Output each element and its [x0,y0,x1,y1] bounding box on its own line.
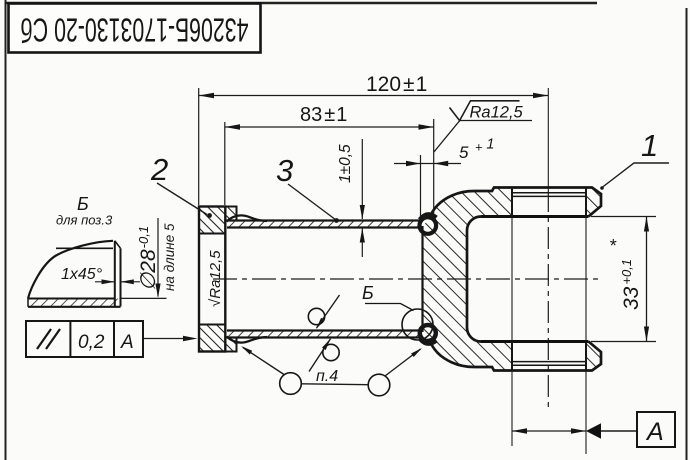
parallelism symbol // [37,329,51,349]
svg-text:120±1: 120±1 [366,73,427,96]
dimension 83±1 extension lines [224,122,226,205]
tube bottom wall hatch [227,331,421,338]
dimension 120±1 line [199,95,549,97]
detail Б indicator circle [402,309,433,340]
weld symbol lower circle [323,344,339,360]
note п.4 connector [301,383,368,386]
note п.4 left circle [280,373,302,395]
detail Б tube outer curve [28,241,113,299]
view A box [637,412,675,447]
svg-text:Ra12,5: Ra12,5 [470,104,524,122]
detail Б bore line [56,247,113,249]
ring bore line top [199,233,225,235]
svg-text:0,2: 0,2 [78,332,105,353]
surface finish Ra12,5 shelf [460,120,532,122]
yoke inner face bottom (bearing seat) [481,340,589,343]
yoke (item 1) hatch: web and arms [423,188,513,371]
yoke bearing groove bottom [512,361,586,363]
weld symbol upper leader [317,295,340,328]
svg-text:для поз.3: для поз.3 [56,213,113,228]
yoke bore edge left projection [511,217,513,342]
yoke outer profile bottom [429,339,601,371]
detail Б end face double line [114,241,116,307]
yoke U inner fillet and web inner face [467,217,481,342]
ring lip top [225,207,236,221]
svg-text:Б: Б [362,283,374,303]
surface finish Ra12,5 check symbol [450,101,520,121]
svg-text:2: 2 [150,152,168,187]
dimension 5+1 extension line [420,155,422,216]
detail Б wall lines [28,298,115,300]
tube top wall lines [227,219,421,221]
frame top border [5,2,597,4]
ring R (item 2) outline [199,207,225,352]
svg-text:+1: +1 [475,137,494,155]
svg-text:√Ra12,5: √Ra12,5 [207,250,224,307]
dimension 33+0,1 line [646,217,648,342]
note п.4 right arrow leader [385,349,421,376]
detail Б wall hatch [28,299,121,307]
center line vertical (yoke bore axis) / 120 extension [547,88,549,190]
note п.4 right circle [368,374,390,396]
weld bead top [420,214,437,219]
weld symbol upper circle [308,308,324,324]
label 3 leader [288,184,336,220]
svg-text:1: 1 [641,128,658,163]
dimension 1±0,5 lines and arrows [361,139,363,219]
view A direction arrow (filled) [586,423,601,439]
yoke bore edge left (solid at ears) [511,188,513,217]
ring lip bottom [225,338,236,352]
label Б leader [365,304,414,311]
svg-text:33+0,1: 33+0,1 [619,259,643,310]
tube flare at ring, bottom [227,337,268,343]
svg-text:1±0,5: 1±0,5 [337,144,354,183]
label 2 leader [157,183,207,215]
yoke inner face top (bearing seat) [481,215,589,218]
svg-text:А: А [120,332,134,353]
frame left border [5,0,7,460]
svg-text:1х45°: 1х45° [61,266,103,283]
surface finish leader [434,121,460,153]
tolerance frame leader arrow [143,338,185,340]
svg-text:на длине 5: на длине 5 [162,223,177,291]
yoke bore edge right projection [585,217,587,342]
dimension 33+0,1 extension lines [591,216,656,218]
frame right border [686,8,688,460]
svg-text:∅28-0,1: ∅28-0,1 [136,226,160,291]
svg-text:*: * [609,236,617,256]
detail Б dimension ⌀28 extension [121,297,167,299]
weld symbol lower leader [309,339,331,372]
ring R (item 2) hatch top [199,207,237,234]
svg-text:43206Б-1703130-20 Сб: 43206Б-1703130-20 Сб [21,12,249,49]
label 1 leader with shelf [602,163,669,188]
yoke outer profile top [429,188,601,220]
yoke hatch: top ear right wall [586,188,601,217]
svg-text:п.4: п.4 [316,368,338,385]
tube flare at ring, top [227,215,268,221]
tube end face [420,220,422,229]
center line horizontal (part axis) [213,278,601,280]
svg-text:83±1: 83±1 [300,104,347,126]
ring bore line bottom [199,324,225,326]
detail Б chamfer [115,241,121,249]
svg-text:3: 3 [276,153,293,188]
title block box [9,4,261,53]
note п.4 left arrow leader [243,348,284,375]
parallelism tolerance frame [26,321,143,357]
yoke hatch: bottom ear right wall [586,342,601,371]
svg-text:А: А [645,418,664,446]
detail Б dimension 1x45° arrows [95,281,115,283]
dimension 5+1 line and arrows [394,163,461,165]
yoke bearing groove top [512,192,586,194]
svg-text:5: 5 [459,143,469,162]
tube (item 3) top wall hatch [227,221,421,228]
dimension 83±1 line [225,126,434,128]
svg-text:Б: Б [77,194,89,214]
weld bead bottom [420,339,437,344]
yoke bore edge right (solid at ears) [585,188,587,217]
detail Б dimension ⌀28 line [157,218,159,297]
ring R (item 2) hatch bottom [199,325,237,352]
dimension 120±1 extension line left [198,88,200,205]
tube bottom wall lines [227,329,421,331]
view A dimension line [512,430,586,432]
yoke web left face [421,226,423,332]
